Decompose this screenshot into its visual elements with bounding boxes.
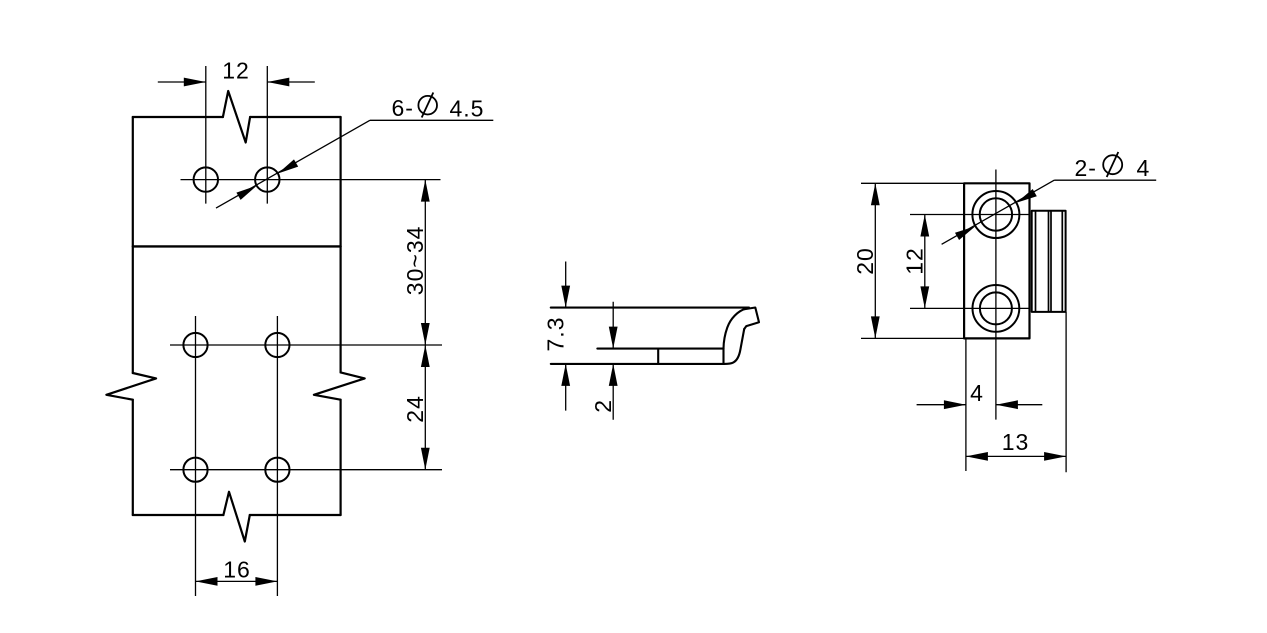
profile bottom line	[551, 363, 725, 365]
centerline vertical holes	[995, 170, 997, 420]
centerline vertical lower-right holes	[276, 316, 278, 596]
svg-text:7.3: 7.3	[543, 317, 569, 352]
profile seam left	[657, 349, 659, 364]
plate left break zigzag	[106, 373, 156, 400]
dimension 16 (bottom)	[196, 557, 278, 586]
profile seam right	[722, 349, 724, 364]
svg-text:16: 16	[223, 557, 251, 583]
dimension 12 (top)	[158, 58, 315, 87]
extension line block left lower	[965, 338, 967, 471]
plate bottom edge	[133, 514, 341, 516]
boss line 3	[1050, 211, 1052, 312]
hole top-left	[194, 167, 218, 191]
plate divider line	[133, 245, 341, 247]
dimension 4	[917, 380, 1043, 409]
leader 2-dia4	[942, 152, 1157, 244]
hook inner bend	[724, 329, 744, 364]
centerline vertical top-left hole	[205, 66, 207, 204]
dimension 2	[590, 302, 618, 420]
counterbore top hole inner	[980, 198, 1012, 230]
boss line 4	[1061, 211, 1063, 312]
dimension 20	[852, 183, 880, 338]
svg-text:13: 13	[1002, 429, 1030, 455]
hook tab tip	[744, 308, 760, 330]
plate bottom break zigzag	[223, 492, 249, 542]
plate top edge	[133, 116, 341, 118]
centerline vertical lower-left holes	[195, 316, 197, 596]
svg-text:30~34: 30~34	[402, 226, 428, 296]
plate left edge	[132, 117, 134, 515]
diameter symbol	[418, 96, 437, 115]
boss rectangle	[1032, 211, 1066, 312]
svg-text:20: 20	[852, 247, 878, 275]
centerline horizontal bottom row	[170, 469, 442, 471]
svg-text:4.5: 4.5	[450, 96, 485, 122]
dimension 24 (right of plate)	[402, 345, 430, 470]
counterbore bottom hole inner	[980, 292, 1012, 324]
svg-text:4: 4	[970, 380, 984, 406]
svg-text:12: 12	[902, 247, 928, 275]
centerline horizontal mid row	[170, 344, 442, 346]
extension line boss right lower	[1065, 312, 1067, 472]
dimension 13	[966, 429, 1066, 461]
profile mid line	[597, 348, 723, 350]
centerline vertical top-right hole	[266, 66, 268, 204]
plate top break zigzag	[223, 91, 250, 143]
hook outer bend	[724, 308, 747, 348]
svg-text:6-: 6-	[392, 95, 414, 121]
plate right break zigzag	[314, 372, 365, 399]
dimension 30~34 (right of plate)	[402, 180, 430, 345]
hole bottom-left	[183, 458, 207, 482]
svg-text:4: 4	[1137, 155, 1151, 181]
svg-text:2-: 2-	[1075, 155, 1097, 181]
centerline horizontal top holes	[181, 179, 441, 181]
block body rectangle	[964, 183, 1029, 338]
counterbore bottom hole outer	[973, 285, 1020, 332]
boss line 2	[1048, 211, 1050, 312]
dimension 12 (right view)	[902, 215, 930, 309]
extension line bottom edge	[861, 337, 964, 339]
svg-text:12: 12	[222, 58, 250, 84]
dimension 7.3	[543, 262, 571, 411]
centerline horizontal bottom hole	[910, 307, 1030, 309]
profile top line	[551, 307, 749, 309]
plate right edge	[340, 117, 342, 515]
leader 6-dia4.5	[216, 93, 493, 209]
hole mid-right	[265, 333, 289, 357]
centerline horizontal top hole	[910, 214, 1030, 216]
svg-text:24: 24	[402, 395, 428, 423]
svg-text:2: 2	[590, 399, 616, 413]
diameter symbol	[1103, 155, 1122, 174]
hole top-right	[255, 167, 279, 191]
boss line 1	[1035, 211, 1037, 312]
counterbore top hole outer	[972, 191, 1019, 238]
hole bottom-right	[265, 458, 289, 482]
extension line top edge	[861, 182, 964, 184]
hole mid-left	[183, 333, 207, 357]
